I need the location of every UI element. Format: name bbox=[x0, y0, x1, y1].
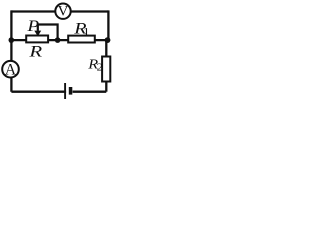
node: wiper junction bbox=[55, 37, 61, 43]
svg-text:R1: R1 bbox=[73, 20, 89, 38]
svg-text:V: V bbox=[58, 4, 69, 20]
wire: right vertical upper bbox=[107, 10, 109, 40]
node: left junction bbox=[9, 37, 15, 43]
svg-text:A: A bbox=[5, 62, 17, 79]
wire: right vertical lower bbox=[105, 40, 107, 92]
wire: left vertical bbox=[10, 10, 12, 91]
ammeter A circle bbox=[2, 61, 19, 78]
wire: wiper from arrow to middle node bbox=[38, 25, 58, 41]
resistor R2 body bbox=[102, 57, 110, 82]
svg-text:R2: R2 bbox=[87, 58, 103, 73]
battery long plate (+) bbox=[64, 83, 66, 99]
wire: middle branch horizontal bbox=[11, 39, 108, 41]
resistor R (rheostat body) bbox=[26, 36, 48, 43]
wire: top bbox=[11, 10, 108, 12]
battery cell: white gap bbox=[66, 82, 73, 101]
resistor R1 body bbox=[68, 36, 95, 43]
node: right junction bbox=[105, 37, 111, 43]
wire: bottom bbox=[11, 90, 106, 92]
voltmeter V circle bbox=[55, 4, 70, 19]
rheostat R slider arrowhead bbox=[34, 31, 41, 37]
battery short thick plate (-) bbox=[69, 87, 73, 95]
svg-text:P: P bbox=[26, 16, 39, 34]
svg-text:R: R bbox=[28, 43, 42, 60]
